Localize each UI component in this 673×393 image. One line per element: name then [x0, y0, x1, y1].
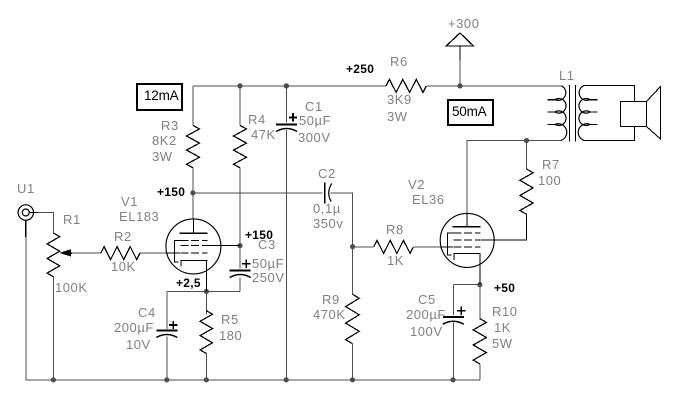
tube V2 internals (plate, grids g3 g2 g1, cathode) [466, 214, 468, 227]
wire V2 cathode node row to C5 [453, 284, 480, 286]
transformer L1 secondary loop ticks [590, 100, 598, 125]
wire R9 bottom lead [352, 344, 354, 380]
capacitor C2 film coupling [324, 182, 326, 203]
node R5 ground junction dot [204, 377, 209, 382]
label 10K [111, 259, 136, 274]
wire R8 right lead to V2 grid [413, 246, 441, 248]
label +50 [494, 281, 515, 295]
label +150 [157, 185, 185, 199]
wire C4 top lead [166, 291, 168, 329]
label +2,5 [176, 276, 201, 290]
wire top bus left segment (V1 plate node to R6) [193, 85, 386, 87]
label 100V [410, 324, 443, 339]
node V1 screen grid junction dot [237, 243, 242, 248]
wire R4 bottom lead crossing +150 bus to V1 g2 node [239, 168, 241, 246]
wire R9 top lead [352, 247, 354, 295]
wire R8 left lead [353, 246, 374, 248]
label 3K9 [387, 92, 412, 107]
capacitor C4 [156, 329, 177, 331]
resistor R5 [200, 311, 212, 354]
speaker [621, 102, 647, 127]
wire R4 top lead [239, 86, 241, 126]
label 470K [313, 307, 346, 322]
transformer L1 primary loop ticks [547, 100, 555, 125]
wire V1 plate lead from +150 node [192, 193, 194, 220]
label R3 [161, 118, 179, 133]
label C5 [418, 292, 436, 307]
resistor R10 [473, 319, 486, 364]
wire C5 top lead [452, 285, 454, 315]
label 12mA [144, 88, 178, 103]
label V1 [121, 194, 138, 209]
label +250 [346, 62, 374, 76]
connector U1 input jack [18, 205, 33, 220]
wire +300 supply lead [459, 59, 461, 86]
node +150 junction dot [190, 190, 195, 195]
node C1 ground junction dot [284, 377, 289, 382]
current label box 12mA [137, 84, 182, 110]
wire R3 top lead [192, 86, 194, 126]
transformer L1 secondary winding [578, 86, 590, 140]
label 8K2 [152, 133, 177, 148]
label R5 [221, 312, 239, 327]
node R9 ground junction dot [350, 377, 355, 382]
capacitor C5 plus sign [457, 307, 465, 315]
label 100K [55, 280, 88, 295]
label R9 [322, 292, 340, 307]
capacitor C1 [276, 123, 297, 125]
tube V1 EL183 envelope [166, 219, 221, 274]
label EL183 [119, 209, 159, 224]
label R2 [114, 229, 132, 244]
label C1 [305, 99, 323, 114]
node V1 cathode junction dot [204, 289, 209, 294]
wire V2 plate node from transformer [467, 141, 526, 214]
label 300V [298, 130, 331, 145]
wire C3 top lead [239, 246, 241, 269]
capacitor C3 [230, 269, 251, 271]
label +150 [245, 228, 273, 242]
label 350v [313, 216, 343, 231]
wire R2 to V1 control grid [140, 252, 167, 254]
label U1 [17, 181, 35, 196]
label +300 [448, 16, 479, 31]
label 200µF [406, 307, 446, 322]
wire jack ground lead down [25, 236, 27, 380]
potentiometer R1 [47, 233, 60, 277]
label 180 [219, 328, 242, 343]
wire secondary to speaker [583, 86, 635, 141]
label C3 [258, 237, 276, 252]
wire input jack to R1 top [33, 213, 53, 233]
label 3W [387, 109, 408, 124]
label 50µF [252, 256, 284, 271]
wire C1 top lead [285, 86, 287, 122]
resistor R3 [187, 125, 200, 167]
wire R10 top lead [479, 285, 481, 319]
label R4 [248, 112, 266, 127]
node V2 cathode +50 junction dot [477, 282, 482, 287]
label C4 [138, 305, 156, 320]
wire top bus right segment (R6 to transformer) [426, 85, 562, 87]
label R1 [63, 212, 81, 227]
resistor R7 with black leads [520, 169, 533, 214]
tube V2 EL36 envelope [440, 213, 494, 267]
potentiometer R1 wiper arrow [59, 249, 71, 256]
wire V1 g1 lead into tube [166, 252, 180, 254]
wire C3 bottom lead [239, 278, 241, 292]
wire R5 bottom lead [205, 354, 207, 380]
label R8 [386, 222, 404, 237]
wire C5 bottom lead [452, 323, 454, 380]
node +300 junction dot [457, 83, 462, 88]
power +300 triangle [446, 33, 473, 46]
wire R5 top lead [205, 291, 207, 314]
label 1K [387, 253, 404, 268]
wire R1 wiper to R2 [71, 252, 101, 254]
label 250V [252, 270, 285, 285]
wire transformer primary bottom lead [527, 140, 563, 142]
label 200µF [114, 320, 154, 335]
wire V2 cathode lead down [479, 254, 481, 285]
capacitor C4 plus sign [169, 321, 177, 329]
label 50µF [299, 113, 331, 128]
node R1 ground junction dot [51, 377, 56, 382]
resistor R2 [101, 247, 140, 260]
label 0,1µ [313, 201, 341, 216]
wire V1 g2 lead to node [208, 245, 241, 247]
wire R10 bottom lead [479, 364, 481, 380]
capacitor C3 plus sign [242, 260, 250, 268]
node R8/R9/C2 junction dot [350, 244, 355, 249]
capacitor C1 plus sign [289, 113, 297, 121]
label 47K [251, 127, 276, 142]
node C5 ground junction dot [450, 377, 455, 382]
wire R3 bottom lead to +150 node [192, 168, 194, 193]
label 10V [126, 337, 151, 352]
wire V1 cathode node row (C4 to C3) [167, 290, 240, 292]
wire C1 bottom lead down to ground bus [285, 130, 287, 380]
transformer L1 core [570, 85, 576, 142]
resistor R4 [234, 125, 247, 167]
wire V1 cathode lead down [206, 260, 208, 291]
node transformer/R7 junction dot [524, 138, 529, 143]
label 50mA [452, 104, 486, 119]
label 100 [538, 173, 561, 188]
wire R7 bottom lead to V2 screen grid [481, 214, 527, 240]
wire C4 bottom lead [166, 337, 168, 380]
label R6 [390, 54, 408, 69]
label 1K [494, 320, 511, 335]
resistor R9 [346, 294, 360, 344]
current label box 50mA [448, 100, 493, 125]
transformer L1 primary winding [555, 86, 567, 140]
wire R1 bottom lead to ground bus [52, 277, 54, 380]
label V2 [408, 177, 425, 192]
label C2 [318, 166, 336, 181]
wire R7 top lead [526, 141, 528, 170]
label EL36 [412, 192, 445, 207]
label L1 [559, 68, 575, 83]
node R4 top junction dot [237, 83, 242, 88]
wire C2 right lead and drop to R8/R9 node [331, 193, 353, 246]
label 5W [492, 336, 513, 351]
label R7 [542, 157, 560, 172]
tube V1 internals (plate, grids g3 g2 g1, cathode) [192, 219, 194, 233]
capacitor C5 [443, 316, 464, 318]
wire V2 g1 lead into tube [441, 246, 453, 248]
label R10 [492, 304, 518, 319]
node C1 top junction dot [284, 83, 289, 88]
wire ground bus bottom [26, 379, 480, 381]
resistor R6 [386, 79, 426, 92]
wire +150 bus from V1 plate node to C2 [193, 192, 323, 194]
label 3W [152, 149, 173, 164]
resistor R8 [374, 240, 414, 253]
node C4 ground junction dot [164, 377, 169, 382]
